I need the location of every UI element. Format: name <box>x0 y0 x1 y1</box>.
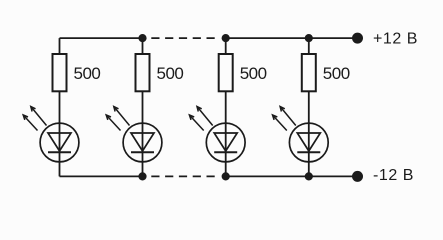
LED VD4 circle <box>289 123 328 162</box>
LED VD1 circle <box>40 123 79 162</box>
LED VD3 circle <box>206 123 245 162</box>
LED VD3 emission arrow upper <box>197 107 213 126</box>
resistor R1 body <box>53 54 67 91</box>
junction node branch 4 top rail <box>305 34 313 42</box>
wire resistor R2 to LED VD2 and bottom rail <box>142 91 144 176</box>
wire resistor R1 to LED VD1 and bottom rail <box>59 91 61 176</box>
svg-text:-12 В: -12 В <box>373 167 414 184</box>
wire branch 2 top rail to resistor R2 <box>142 38 144 54</box>
junction node branch 3 bottom rail <box>222 172 230 180</box>
LED VD2 cathode bar <box>131 151 154 153</box>
junction node branch 4 bottom rail <box>305 172 313 180</box>
junction node branch 2 top rail <box>138 34 146 42</box>
svg-text:500: 500 <box>157 64 184 83</box>
resistor R3 body <box>219 54 233 91</box>
LED VD4 anode triangle <box>297 133 320 151</box>
LED VD2 emission arrow upper <box>114 107 130 126</box>
LED VD3 emission arrow lower <box>189 115 203 131</box>
terminal node +12V <box>352 33 363 44</box>
terminal node -12V <box>352 171 363 182</box>
LED VD2 anode triangle <box>131 133 154 151</box>
wire bottom rail segment branch3 to -12V terminal <box>226 175 358 177</box>
LED VD1 anode triangle <box>48 133 71 151</box>
svg-text:+12 В: +12 В <box>373 30 418 47</box>
wire bottom rail dashed continuation branch2 to branch3 <box>151 175 218 177</box>
junction node branch 2 bottom rail <box>138 172 146 180</box>
wire resistor R3 to LED VD3 and bottom rail <box>225 91 227 176</box>
LED VD4 emission arrow upper <box>280 107 296 126</box>
wire resistor R4 to LED VD4 and bottom rail <box>308 91 310 176</box>
LED VD4 cathode bar <box>297 151 320 153</box>
junction node branch 3 top rail <box>222 34 230 42</box>
wire top rail segment branch1 to branch2 <box>60 37 143 39</box>
LED VD1 cathode bar <box>48 151 71 153</box>
wire bottom rail segment branch1 to branch2 <box>60 175 143 177</box>
svg-text:500: 500 <box>240 64 267 83</box>
wire branch 3 top rail to resistor R3 <box>225 38 227 54</box>
svg-text:500: 500 <box>323 64 350 83</box>
LED VD2 emission arrow lower <box>106 115 120 131</box>
LED VD3 anode triangle <box>214 133 237 151</box>
wire branch 1 top rail to resistor R1 <box>59 38 61 54</box>
LED VD2 circle <box>123 123 162 162</box>
wire top rail dashed continuation branch2 to branch3 <box>151 37 218 39</box>
LED VD3 cathode bar <box>214 151 237 153</box>
wire top rail segment branch3 to +12V terminal <box>226 37 358 39</box>
wire branch 4 top rail to resistor R4 <box>308 38 310 54</box>
resistor R4 body <box>302 54 316 91</box>
svg-text:500: 500 <box>74 64 101 83</box>
LED VD1 emission arrow upper <box>31 107 47 126</box>
resistor R2 body <box>136 54 150 91</box>
LED VD1 emission arrow lower <box>23 115 37 131</box>
LED VD4 emission arrow lower <box>273 115 287 131</box>
